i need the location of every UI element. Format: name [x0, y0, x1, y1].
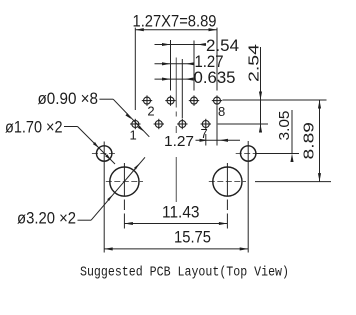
svg-text:15.75: 15.75: [174, 227, 211, 246]
svg-text:ø0.90 ×8: ø0.90 ×8: [38, 89, 99, 108]
svg-text:ø3.20 ×2: ø3.20 ×2: [17, 209, 76, 228]
svg-text:0.635: 0.635: [194, 68, 236, 87]
svg-text:7: 7: [201, 126, 208, 141]
svg-text:1.27X7=8.89: 1.27X7=8.89: [133, 12, 217, 31]
svg-text:1.27: 1.27: [164, 133, 194, 150]
svg-text:1: 1: [130, 128, 137, 143]
svg-text:8.89: 8.89: [301, 122, 318, 160]
svg-text:2.54: 2.54: [246, 44, 263, 82]
svg-text:8: 8: [218, 104, 225, 119]
svg-text:3.05: 3.05: [276, 111, 293, 141]
svg-text:ø1.70 ×2: ø1.70 ×2: [5, 117, 63, 136]
svg-text:Suggested PCB Layout(Top View): Suggested PCB Layout(Top View): [80, 266, 289, 281]
svg-text:11.43: 11.43: [162, 202, 200, 221]
svg-text:2: 2: [147, 103, 154, 118]
